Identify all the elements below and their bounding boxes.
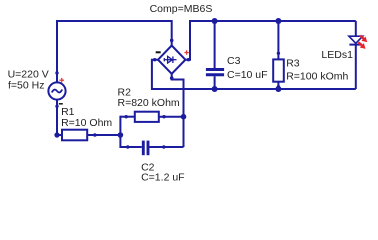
svg-text:LEDs1: LEDs1 (321, 49, 353, 61)
wire R2 branch right (159, 116, 184, 118)
wire source bottom to R1 (57, 100, 62, 135)
AC source minus mark (59, 103, 63, 105)
pin dot V1 top (55, 71, 58, 74)
bridge rectifier U1 diamond (158, 46, 185, 74)
wire C2 branch left (120, 146, 141, 148)
wire C2 branch right (150, 146, 184, 148)
junction C3 top on + rail (212, 18, 218, 24)
pin dot bridge AC bottom (170, 76, 174, 80)
node B junction (R2/C2 block to bridge) (181, 114, 187, 120)
pin dot bridge AC top (170, 39, 174, 43)
LED LEDs1 triangle (349, 36, 363, 43)
junction C3 bottom on - rail (212, 86, 218, 92)
svg-text:C3: C3 (227, 55, 241, 67)
svg-text:R=100 kOmh: R=100 kOmh (286, 71, 348, 83)
capacitor C3 plates (206, 70, 224, 75)
wire node A vertical (R2/C2 block left) (119, 116, 121, 148)
resistor R2 body (135, 112, 159, 122)
wire R2 branch left (120, 116, 134, 118)
node A junction (R1 to R2/C2 block) (118, 132, 124, 138)
svg-text:f=50 Hz: f=50 Hz (8, 80, 44, 92)
LED red arrow 1 (358, 33, 369, 44)
pin dot C2 pin 2 (162, 145, 165, 148)
junction R3 top on + rail (275, 18, 281, 24)
svg-text:C=10 uF: C=10 uF (227, 69, 268, 81)
pin dot bridge minus output (153, 58, 156, 61)
LED cathode bar (349, 44, 362, 46)
bridge diode symbol (164, 56, 177, 63)
AC source sine symbol (52, 90, 62, 93)
svg-text:R3: R3 (286, 58, 300, 70)
wire LED vertical (355, 21, 357, 36)
bridge plus mark (184, 50, 188, 54)
junction R3 bottom on - rail (275, 86, 281, 92)
svg-text:Comp=MB6S: Comp=MB6S (150, 3, 213, 15)
wire bridge right to top rail (185, 21, 355, 60)
junction at V1 bottom / R1 corner (54, 132, 59, 137)
pin dot bridge plus output (187, 58, 190, 61)
pin dot R3 pin 1 (277, 52, 280, 55)
wire R1 right to node A (87, 134, 120, 136)
capacitor C2 plates (143, 141, 148, 156)
svg-text:R=10 Ohm: R=10 Ohm (61, 117, 112, 129)
wire bridge left to bottom rail (152, 60, 356, 89)
wire R3 vertical (277, 21, 279, 59)
wire top-left net: source top to bridge top (57, 21, 172, 83)
wire C3 vertical (214, 21, 216, 68)
svg-text:R=820 kOhm: R=820 kOhm (118, 97, 180, 109)
pin dot R2 pin 1 (125, 115, 128, 118)
pin dot V1 bottom (55, 105, 58, 108)
wire block right vertical to bridge bottom (172, 74, 184, 147)
resistor R1 body (62, 130, 87, 141)
resistor R3 body (273, 59, 284, 81)
pin dot R1 pin 2 (93, 133, 97, 137)
svg-text:C=1.2 uF: C=1.2 uF (141, 172, 184, 184)
pin dot C2 pin 1 (126, 145, 129, 148)
bridge minus mark (156, 51, 161, 53)
AC source V1 circle (48, 82, 65, 99)
LED red arrow 2 (356, 40, 367, 51)
pin dot R2 pin 2 (162, 115, 165, 118)
pin dot R3 pin 2 (277, 85, 280, 88)
AC source plus mark (59, 78, 64, 83)
